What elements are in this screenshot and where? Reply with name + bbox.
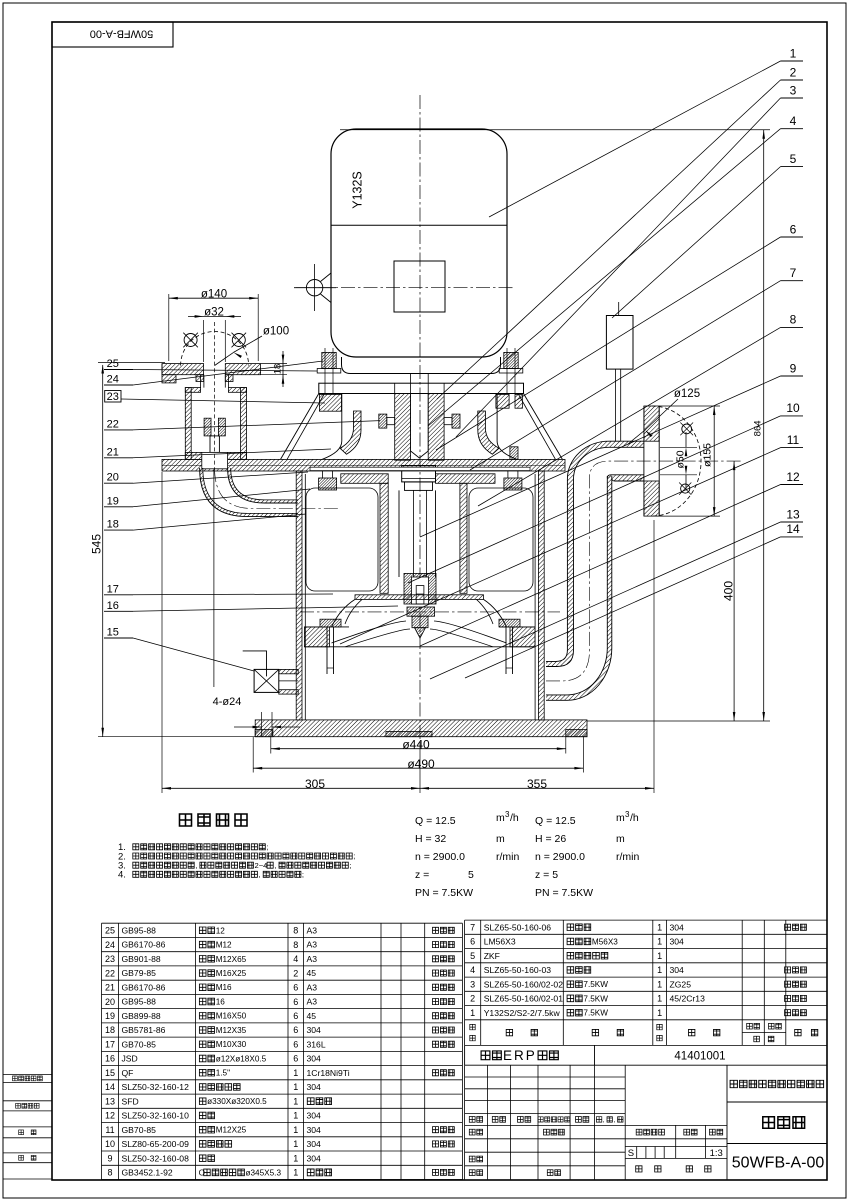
svg-text:16: 16	[105, 1054, 115, 1064]
svg-text:GB3452.1-92: GB3452.1-92	[122, 1168, 173, 1178]
svg-text:m: m	[616, 833, 625, 845]
svg-text:1: 1	[657, 951, 662, 961]
svg-text:z =: z =	[415, 869, 429, 881]
svg-text:45/2Cr13: 45/2Cr13	[670, 994, 706, 1004]
svg-text:2: 2	[470, 994, 475, 1004]
svg-text:1: 1	[657, 965, 662, 975]
svg-text:1: 1	[293, 1139, 298, 1149]
svg-text:Y132S2/S2-2/7.5kw: Y132S2/S2-2/7.5kw	[484, 1008, 561, 1018]
svg-text:6: 6	[293, 1040, 298, 1050]
svg-text:M12X25: M12X25	[216, 1126, 247, 1135]
svg-text:1: 1	[657, 994, 662, 1004]
svg-text:M10X30: M10X30	[216, 1040, 247, 1049]
svg-text:304: 304	[307, 1082, 322, 1092]
svg-text:304: 304	[307, 1153, 322, 1163]
svg-text:7.5KW: 7.5KW	[583, 994, 608, 1003]
svg-text:ø12Xø18X0.5: ø12Xø18X0.5	[216, 1054, 267, 1063]
svg-text:18: 18	[273, 364, 284, 375]
svg-text:M12X35: M12X35	[216, 1026, 247, 1035]
svg-text:24: 24	[105, 940, 115, 950]
svg-text:JSD: JSD	[122, 1054, 138, 1064]
svg-text:23: 23	[107, 391, 119, 403]
svg-text:GB6170-86: GB6170-86	[122, 940, 166, 950]
svg-text:1Cr18Ni9Ti: 1Cr18Ni9Ti	[307, 1068, 350, 1078]
svg-text:ø140: ø140	[201, 288, 227, 300]
svg-text:14: 14	[786, 522, 800, 536]
svg-text:ø100: ø100	[263, 326, 289, 338]
svg-text:2: 2	[293, 968, 298, 978]
svg-text:14: 14	[105, 1082, 115, 1092]
svg-text:1: 1	[293, 1068, 298, 1078]
svg-text:22: 22	[107, 418, 119, 430]
svg-text:304: 304	[307, 1139, 322, 1149]
svg-text:12: 12	[786, 470, 800, 484]
svg-text:1: 1	[790, 46, 797, 60]
svg-text:M16X25: M16X25	[216, 969, 247, 978]
svg-text:22: 22	[105, 968, 115, 978]
svg-text:304: 304	[670, 922, 685, 932]
svg-text:GB901-88: GB901-88	[122, 954, 161, 964]
svg-text:SLZ50-32-160-10: SLZ50-32-160-10	[122, 1111, 190, 1121]
svg-text:45: 45	[307, 1011, 317, 1021]
svg-text:PN = 7.5KW: PN = 7.5KW	[415, 887, 473, 899]
svg-text:8: 8	[293, 940, 298, 950]
svg-text:A3: A3	[307, 997, 318, 1007]
svg-text:12: 12	[105, 1111, 115, 1121]
svg-text:304: 304	[670, 965, 685, 975]
svg-text:11: 11	[787, 433, 800, 447]
svg-text:SLZ65-50-160/02-01: SLZ65-50-160/02-01	[484, 994, 564, 1004]
svg-text:16: 16	[107, 600, 119, 612]
svg-text:GB95-88: GB95-88	[122, 997, 157, 1007]
svg-text:1: 1	[293, 1153, 298, 1163]
svg-text:S: S	[628, 1148, 634, 1159]
svg-text:1: 1	[657, 1008, 662, 1018]
svg-text:r/min: r/min	[496, 851, 519, 863]
svg-text:GB5781-86: GB5781-86	[122, 1025, 166, 1035]
svg-text:24: 24	[107, 374, 119, 386]
svg-text:m: m	[616, 812, 625, 824]
svg-text:1: 1	[657, 937, 662, 947]
svg-text:M16: M16	[216, 983, 232, 992]
svg-text:18: 18	[105, 1025, 115, 1035]
svg-text:8: 8	[107, 1168, 112, 1178]
svg-text:ø330Xø320X0.5: ø330Xø320X0.5	[207, 1097, 267, 1106]
svg-text:25: 25	[107, 358, 119, 370]
svg-text:/h: /h	[630, 812, 639, 824]
svg-text:SLZ50-32-160-08: SLZ50-32-160-08	[122, 1153, 190, 1163]
svg-text:15: 15	[105, 1068, 115, 1078]
svg-text:1: 1	[657, 979, 662, 989]
svg-text:304: 304	[670, 937, 685, 947]
svg-text:16: 16	[216, 998, 226, 1007]
svg-text:1: 1	[293, 1125, 298, 1135]
svg-text:;: ;	[349, 861, 351, 870]
svg-text:z = 5: z = 5	[535, 869, 558, 881]
svg-text:5: 5	[470, 951, 475, 961]
svg-text:305: 305	[305, 777, 325, 791]
svg-text:20: 20	[107, 472, 119, 484]
svg-text:6: 6	[293, 1054, 298, 1064]
svg-text:2~4: 2~4	[255, 861, 268, 870]
svg-text:4: 4	[470, 965, 475, 975]
svg-text:A3: A3	[307, 954, 318, 964]
svg-text:23: 23	[105, 954, 115, 964]
svg-text:r/min: r/min	[616, 851, 639, 863]
svg-text:n = 2900.0: n = 2900.0	[535, 851, 585, 863]
svg-text:6: 6	[293, 1011, 298, 1021]
svg-text:7: 7	[790, 266, 797, 280]
svg-text:SLZ65-50-160-06: SLZ65-50-160-06	[484, 922, 552, 932]
svg-text:8: 8	[790, 313, 797, 327]
svg-text:19: 19	[105, 1011, 115, 1021]
svg-text:Y132S: Y132S	[351, 171, 365, 209]
svg-text:2: 2	[790, 65, 797, 79]
svg-text:6: 6	[293, 983, 298, 993]
svg-text:,: ,	[613, 1117, 615, 1124]
svg-text:304: 304	[307, 1025, 322, 1035]
svg-text:SLZ50-32-160-12: SLZ50-32-160-12	[122, 1082, 190, 1092]
svg-text:1: 1	[293, 1096, 298, 1106]
svg-text:9: 9	[107, 1153, 112, 1163]
svg-text:3: 3	[470, 979, 475, 989]
svg-text:A3: A3	[307, 940, 318, 950]
svg-text:SFD: SFD	[122, 1096, 139, 1106]
svg-text:A3: A3	[307, 925, 318, 935]
svg-text:19: 19	[107, 495, 119, 507]
svg-text:ZG25: ZG25	[670, 979, 692, 989]
svg-text:;: ;	[302, 870, 304, 879]
svg-text:GB899-88: GB899-88	[122, 1011, 161, 1021]
svg-text:304: 304	[307, 1125, 322, 1135]
svg-text:ERP: ERP	[503, 1048, 537, 1063]
svg-text:13: 13	[786, 507, 800, 521]
svg-text:H = 26: H = 26	[535, 833, 566, 845]
svg-text:ø32: ø32	[204, 307, 224, 319]
svg-text:;: ;	[353, 852, 355, 861]
svg-text:13: 13	[105, 1096, 115, 1106]
svg-text:1: 1	[293, 1111, 298, 1121]
svg-text:/h: /h	[510, 812, 519, 824]
svg-text:7: 7	[470, 923, 475, 933]
svg-text:21: 21	[105, 983, 115, 993]
svg-text:H = 32: H = 32	[415, 833, 446, 845]
svg-text:,: ,	[603, 1117, 605, 1124]
svg-text:1.5": 1.5"	[216, 1069, 230, 1078]
svg-text:864: 864	[753, 420, 764, 436]
svg-text:1: 1	[657, 923, 662, 933]
svg-text:M56X3: M56X3	[592, 937, 618, 946]
svg-text:SLZ80-65-200-09: SLZ80-65-200-09	[122, 1139, 190, 1149]
svg-text:45: 45	[307, 968, 317, 978]
svg-text:6: 6	[790, 222, 797, 236]
svg-text:ø125: ø125	[674, 388, 700, 400]
svg-text:GB95-88: GB95-88	[122, 925, 157, 935]
svg-text:1: 1	[293, 1168, 298, 1178]
svg-text:ø50: ø50	[674, 450, 686, 468]
svg-text:11: 11	[105, 1125, 114, 1135]
svg-text:LM56X3: LM56X3	[484, 937, 516, 947]
svg-text:4: 4	[293, 954, 298, 964]
svg-text:GB6170-86: GB6170-86	[122, 982, 166, 992]
svg-text:20: 20	[105, 997, 115, 1007]
svg-text:7.5KW: 7.5KW	[583, 980, 608, 989]
svg-text:1: 1	[470, 1008, 475, 1018]
svg-text:SLZ65-50-160/02-02: SLZ65-50-160/02-02	[484, 979, 564, 989]
svg-text:9: 9	[790, 361, 797, 375]
svg-text:41401001: 41401001	[674, 1050, 725, 1062]
svg-text:GB70-85: GB70-85	[122, 1125, 157, 1135]
svg-text:GB70-85: GB70-85	[122, 1039, 157, 1049]
svg-text:,: ,	[274, 861, 276, 870]
svg-text:17: 17	[107, 583, 119, 595]
svg-text:ø440: ø440	[402, 738, 430, 752]
svg-text:M12X65: M12X65	[216, 955, 247, 964]
svg-text:10: 10	[105, 1139, 115, 1149]
svg-text:ZKF: ZKF	[484, 951, 500, 961]
svg-text:SLZ65-50-160-03: SLZ65-50-160-03	[484, 965, 552, 975]
svg-text:,: ,	[259, 870, 261, 879]
svg-text:12: 12	[216, 926, 226, 935]
svg-text:3: 3	[790, 83, 797, 97]
svg-text:n = 2900.0: n = 2900.0	[415, 851, 465, 863]
svg-text:545: 545	[90, 534, 104, 554]
svg-text:400: 400	[721, 581, 735, 601]
svg-text:6: 6	[470, 937, 475, 947]
svg-text:m: m	[496, 812, 505, 824]
svg-text:304: 304	[307, 1054, 322, 1064]
svg-text:4.: 4.	[118, 870, 126, 881]
svg-text:50WFB-A-00: 50WFB-A-00	[90, 28, 154, 40]
svg-text:5: 5	[790, 152, 797, 166]
svg-text:GB79-85: GB79-85	[122, 968, 157, 978]
svg-text:10: 10	[786, 401, 800, 415]
svg-text:18: 18	[107, 519, 119, 531]
svg-text:M12: M12	[216, 941, 232, 950]
svg-text:8: 8	[293, 926, 298, 936]
svg-text:25: 25	[105, 926, 115, 936]
svg-text:17: 17	[105, 1040, 115, 1050]
svg-text:QF: QF	[122, 1068, 134, 1078]
svg-text:Q = 12.5: Q = 12.5	[415, 815, 456, 827]
svg-text:;: ;	[266, 843, 268, 852]
svg-text:ø345X5.3: ø345X5.3	[246, 1168, 282, 1177]
svg-text:A3: A3	[307, 982, 318, 992]
svg-text:50WFB-A-00: 50WFB-A-00	[732, 1154, 825, 1171]
svg-text:M16X50: M16X50	[216, 1012, 247, 1021]
svg-text:15: 15	[107, 627, 119, 639]
svg-text:304: 304	[307, 1111, 322, 1121]
svg-text:1:3: 1:3	[710, 1148, 723, 1159]
svg-text:m: m	[496, 833, 505, 845]
svg-text:316L: 316L	[307, 1039, 326, 1049]
svg-text:ø490: ø490	[407, 757, 435, 771]
svg-text:PN = 7.5KW: PN = 7.5KW	[535, 887, 593, 899]
svg-text:21: 21	[107, 446, 119, 458]
svg-text:1: 1	[293, 1082, 298, 1092]
svg-text:Q = 12.5: Q = 12.5	[535, 815, 576, 827]
svg-text:5: 5	[468, 869, 474, 881]
svg-text:6: 6	[293, 1025, 298, 1035]
svg-text:4: 4	[790, 114, 797, 128]
svg-text:355: 355	[527, 777, 547, 791]
svg-text:7.5KW: 7.5KW	[583, 1009, 608, 1018]
svg-text:6: 6	[293, 997, 298, 1007]
svg-text:,: ,	[195, 861, 197, 870]
svg-text:4-ø24: 4-ø24	[213, 696, 242, 708]
